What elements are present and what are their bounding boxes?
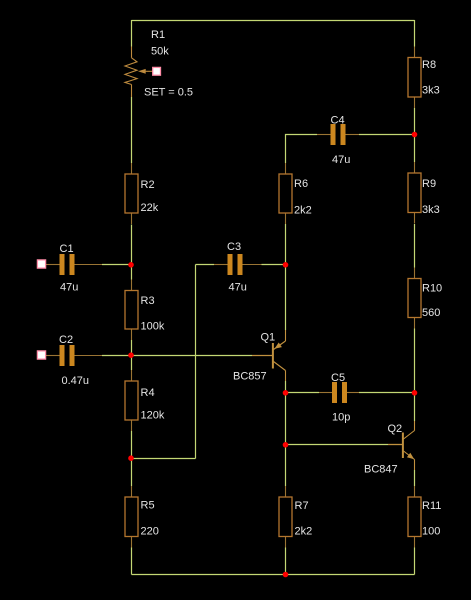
svg-text:0.47u: 0.47u bbox=[62, 375, 90, 387]
svg-text:220: 220 bbox=[141, 526, 159, 538]
svg-text:R10: R10 bbox=[422, 283, 442, 295]
wire right rail R11 to bottom bbox=[414, 548, 416, 575]
wire C3 left branch vertical bbox=[195, 265, 197, 459]
wire C5 left bbox=[286, 392, 320, 394]
resistor R5 bbox=[125, 486, 138, 548]
svg-text:100k: 100k bbox=[141, 321, 165, 333]
junction at C5 right and right rail bbox=[412, 390, 418, 396]
svg-text:2k2: 2k2 bbox=[294, 205, 312, 217]
svg-text:R2: R2 bbox=[141, 179, 155, 191]
svg-text:C5: C5 bbox=[331, 372, 345, 384]
wire bottom rail bbox=[132, 574, 415, 576]
svg-text:SET = 0.5: SET = 0.5 bbox=[144, 87, 193, 99]
transistor Q2 bbox=[388, 421, 415, 470]
svg-text:R11: R11 bbox=[422, 500, 441, 512]
svg-text:2k2: 2k2 bbox=[295, 526, 313, 538]
port of C2 bbox=[37, 351, 45, 359]
resistor R11 bbox=[408, 486, 421, 548]
wire left rail R3 to R4 bbox=[131, 340, 133, 370]
wire left rail R5 to bottom bbox=[131, 548, 133, 575]
svg-text:C1: C1 bbox=[60, 243, 74, 255]
svg-text:50k: 50k bbox=[151, 46, 169, 58]
svg-text:C3: C3 bbox=[227, 241, 241, 253]
wire left rail R2 to R3 bbox=[131, 225, 133, 280]
wire right rail R8 to R9 bbox=[414, 108, 416, 162]
wire right rail Q2 emitter to R11 bbox=[414, 470, 416, 486]
capacitor C5 bbox=[319, 382, 359, 403]
junction at Q2 base branch bbox=[283, 442, 289, 448]
resistor R2 bbox=[125, 163, 138, 224]
svg-text:22k: 22k bbox=[141, 202, 159, 214]
wire Q2 base bbox=[286, 444, 389, 446]
resistor R3 bbox=[125, 280, 138, 341]
junction at bottom rail and R7 bbox=[283, 572, 289, 578]
port of R1 wiper bbox=[153, 67, 161, 75]
svg-text:120k: 120k bbox=[141, 410, 165, 422]
wire left rail above R1 bbox=[131, 20, 133, 47]
svg-text:R3: R3 bbox=[141, 295, 155, 307]
svg-text:47u: 47u bbox=[332, 154, 350, 166]
svg-text:R4: R4 bbox=[141, 387, 155, 399]
wire C1 to left rail bbox=[102, 264, 132, 266]
svg-text:BC847: BC847 bbox=[364, 464, 398, 476]
svg-text:Q2: Q2 bbox=[388, 423, 403, 435]
wire C3 to mid rail bbox=[262, 264, 286, 266]
svg-text:R9: R9 bbox=[422, 178, 436, 190]
wire Q1 collector to R7 bbox=[285, 381, 287, 486]
resistor R7 bbox=[279, 486, 292, 548]
junction at R4 R5 and C3 branch bbox=[128, 455, 134, 461]
wire R4-R5 junction to C3 branch bbox=[132, 458, 196, 460]
wire C3 branch corner to C3 bbox=[196, 264, 215, 266]
svg-text:R1: R1 bbox=[151, 29, 165, 41]
capacitor C4 bbox=[317, 124, 359, 145]
resistor R4 bbox=[125, 370, 138, 431]
wire C4 right to right rail bbox=[359, 134, 415, 136]
junction at C1 and left rail bbox=[128, 262, 134, 268]
svg-text:R8: R8 bbox=[422, 59, 436, 71]
junction at C3 and mid rail bbox=[283, 262, 289, 268]
junction at C4 right and right rail bbox=[412, 132, 418, 138]
svg-text:3k3: 3k3 bbox=[422, 85, 440, 97]
wire R7 to bottom bbox=[285, 548, 287, 575]
svg-text:Q1: Q1 bbox=[261, 332, 276, 344]
junction at C2 and left rail bbox=[128, 352, 134, 358]
svg-text:R7: R7 bbox=[295, 500, 309, 512]
capacitor C3 bbox=[214, 254, 262, 275]
wire mid rail R6 to Q1 emitter bbox=[285, 224, 287, 330]
wire left rail R4 to R5 bbox=[131, 431, 133, 486]
wire right rail R10 to Q2 collector bbox=[414, 329, 416, 422]
svg-text:C2: C2 bbox=[59, 334, 73, 346]
resistor R8 bbox=[408, 47, 421, 109]
wire C4 left corner bbox=[286, 135, 318, 164]
port of C1 bbox=[37, 260, 45, 268]
svg-text:3k3: 3k3 bbox=[422, 204, 440, 216]
svg-text:560: 560 bbox=[422, 307, 440, 319]
wire C2 to Q1 base bbox=[102, 355, 252, 357]
capacitor C1 bbox=[46, 254, 102, 275]
capacitor C2 bbox=[46, 345, 102, 366]
wire C5 right to right rail bbox=[359, 392, 415, 394]
junction at C5 left and Q1 collector bbox=[283, 390, 289, 396]
transistor Q1 bbox=[252, 330, 286, 381]
svg-text:C4: C4 bbox=[331, 115, 345, 127]
resistor R6 bbox=[279, 163, 292, 224]
svg-text:47u: 47u bbox=[60, 282, 78, 294]
svg-text:10p: 10p bbox=[332, 412, 350, 424]
resistor R9 bbox=[408, 162, 421, 224]
svg-text:BC857: BC857 bbox=[233, 371, 267, 383]
svg-text:R6: R6 bbox=[294, 178, 308, 190]
wire right rail above R8 bbox=[414, 20, 416, 47]
wire top rail bbox=[132, 20, 415, 22]
resistor R10 bbox=[408, 268, 421, 329]
wire left rail R1 to R2 bbox=[131, 97, 133, 163]
wire right rail R9 to R10 bbox=[414, 224, 416, 268]
svg-text:R5: R5 bbox=[141, 500, 155, 512]
potentiometer R1 bbox=[125, 47, 153, 98]
svg-text:47u: 47u bbox=[229, 282, 247, 294]
svg-text:100: 100 bbox=[422, 526, 440, 538]
